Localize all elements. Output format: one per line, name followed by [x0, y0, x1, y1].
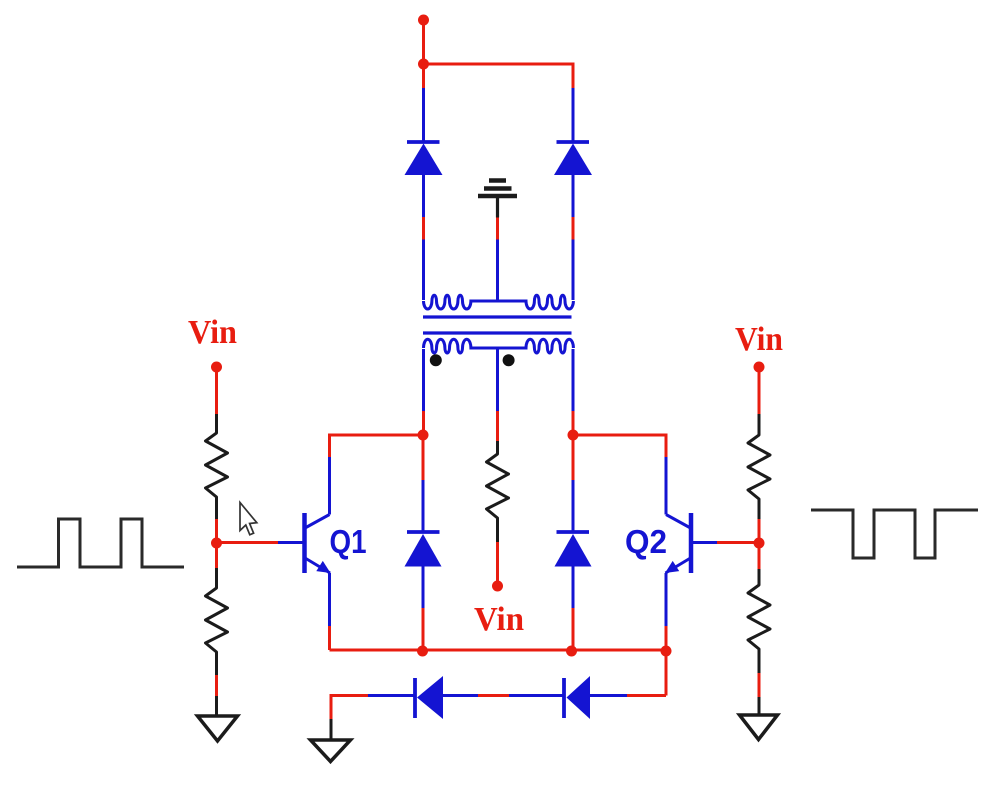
ground — [311, 740, 351, 762]
svg-text:Q1: Q1 — [330, 523, 367, 560]
svg-text:Vin: Vin — [474, 601, 524, 638]
wire — [758, 697, 761, 714]
wire — [758, 367, 761, 414]
wire — [443, 694, 478, 697]
junction — [417, 646, 428, 657]
wire — [422, 20, 425, 64]
wire — [665, 626, 668, 650]
junction — [211, 538, 222, 549]
wire — [215, 519, 218, 543]
junction — [418, 430, 429, 441]
wire — [665, 651, 668, 696]
wire — [509, 694, 563, 697]
node Vin left — [211, 362, 222, 373]
diode D2 — [555, 435, 592, 650]
wire — [572, 175, 575, 217]
diode D4 — [564, 676, 590, 719]
node Vin right — [754, 362, 765, 373]
junction — [568, 430, 579, 441]
wire — [215, 367, 218, 414]
diode D3 — [415, 676, 443, 719]
wire — [328, 626, 331, 650]
wire — [572, 349, 575, 411]
signal waveform left — [17, 519, 184, 567]
wire — [215, 543, 218, 568]
node Vin center — [492, 581, 503, 592]
wire — [496, 542, 499, 586]
ground — [198, 716, 238, 741]
diode D6 — [554, 142, 592, 175]
svg-text:Vin: Vin — [188, 314, 237, 351]
wire — [478, 694, 509, 697]
wire — [572, 411, 575, 435]
resistor R3 — [748, 414, 770, 519]
wire — [758, 543, 761, 569]
wire — [215, 675, 218, 696]
transformer T1 — [423, 295, 573, 366]
wire — [422, 175, 425, 217]
wire — [217, 541, 279, 544]
signal waveform right — [811, 510, 978, 558]
wire — [758, 519, 761, 543]
diode D1 — [405, 435, 442, 650]
wire — [330, 719, 333, 740]
node top supply dot — [418, 15, 429, 26]
wire bottom rail — [330, 649, 667, 652]
ground — [740, 715, 778, 740]
resistor R2 — [206, 568, 228, 675]
wire — [573, 435, 666, 457]
transistor Q1 — [278, 457, 331, 626]
wire — [758, 673, 761, 697]
wire — [422, 349, 425, 411]
wire — [590, 694, 627, 697]
junction — [418, 59, 429, 70]
wire — [422, 64, 425, 88]
junction — [566, 646, 577, 657]
wire — [368, 694, 414, 697]
wire — [627, 694, 666, 697]
mouse cursor — [240, 503, 257, 535]
svg-text:Vin: Vin — [735, 321, 783, 358]
ground earth — [478, 181, 517, 218]
wire — [422, 240, 425, 301]
resistor R4 — [748, 569, 770, 673]
wire — [496, 218, 499, 240]
junction — [754, 538, 765, 549]
resistor R5 — [487, 441, 509, 542]
svg-text:Q2: Q2 — [625, 523, 667, 560]
wire — [717, 541, 759, 544]
wire — [422, 217, 425, 240]
junction — [661, 646, 672, 657]
wire — [572, 240, 575, 301]
wire — [422, 88, 425, 142]
wire — [496, 348, 499, 411]
wire — [572, 88, 575, 142]
diode D5 — [405, 142, 443, 175]
wire — [330, 435, 424, 457]
wire — [331, 696, 368, 720]
wire — [424, 64, 574, 88]
transistor Q2 — [665, 457, 717, 626]
wire — [215, 696, 218, 715]
wire — [572, 217, 575, 240]
wire — [496, 240, 499, 302]
wire — [422, 411, 425, 435]
resistor R1 — [206, 414, 228, 519]
wire — [496, 411, 499, 441]
